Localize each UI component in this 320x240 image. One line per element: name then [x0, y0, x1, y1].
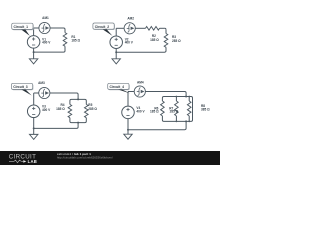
svg-text:185 Ω: 185 Ω — [56, 107, 65, 111]
svg-text:AM4: AM4 — [137, 80, 144, 84]
svg-text:Circuit_3: Circuit_3 — [13, 85, 28, 89]
svg-text:http://circuitlab.com/c/creb62: http://circuitlab.com/c/creb626536z6krbv… — [57, 155, 113, 159]
svg-text:185 Ω: 185 Ω — [150, 110, 159, 114]
svg-text:400 V: 400 V — [136, 110, 145, 114]
svg-text:285 Ω: 285 Ω — [172, 39, 181, 43]
svg-text:Circuit_2: Circuit_2 — [95, 25, 110, 29]
svg-text:AM3: AM3 — [38, 81, 45, 85]
svg-text:Circuit_4: Circuit_4 — [110, 85, 125, 89]
svg-text:185 Ω: 185 Ω — [150, 38, 159, 42]
svg-text:185 Ω: 185 Ω — [71, 39, 80, 43]
svg-text:400 V: 400 V — [125, 41, 134, 45]
svg-text:AM2: AM2 — [127, 16, 134, 20]
svg-text:400 V: 400 V — [42, 108, 51, 112]
svg-text:Circuit_1: Circuit_1 — [14, 25, 29, 29]
svg-text:LAB: LAB — [28, 159, 38, 164]
svg-text:AM1: AM1 — [42, 16, 49, 20]
svg-text:385 Ω: 385 Ω — [201, 108, 210, 112]
svg-text:285 Ω: 285 Ω — [88, 107, 97, 111]
svg-text:400 V: 400 V — [42, 41, 51, 45]
svg-text:285 Ω: 285 Ω — [170, 110, 179, 114]
